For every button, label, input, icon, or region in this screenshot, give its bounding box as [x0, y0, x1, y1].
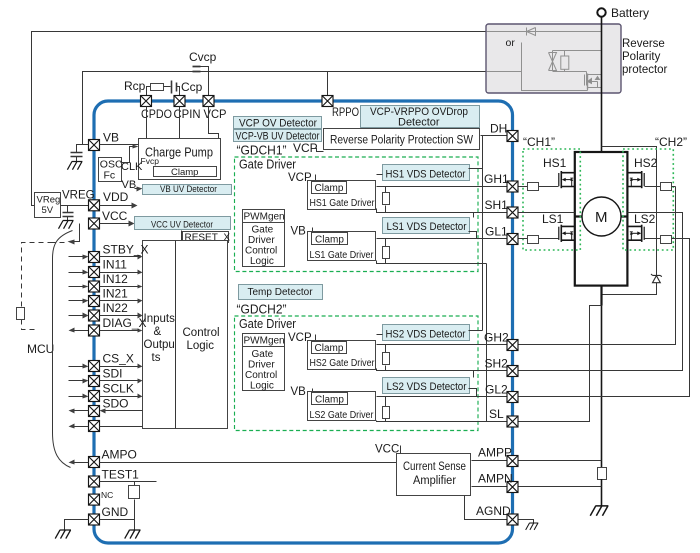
wire HS1 driver to VDS — [377, 174, 383, 176]
pin CPDO — [141, 96, 152, 107]
motor M — [582, 197, 621, 236]
svg-text:Detector: Detector — [398, 117, 440, 129]
svg-text:Fvcp: Fvcp — [141, 156, 160, 166]
resistor Rg GL1 — [519, 236, 559, 244]
pin CS_X — [89, 361, 100, 372]
svg-text:SCLK: SCLK — [103, 382, 134, 396]
wire VREG to VDD — [61, 205, 89, 207]
svg-text:VReg: VReg — [37, 195, 61, 206]
motor bridge frame — [575, 152, 628, 286]
ground shunt — [590, 506, 608, 516]
wire or-branch stub — [521, 43, 523, 72]
wire SL jog — [519, 306, 602, 422]
ground TEST1/GND — [125, 530, 141, 539]
svg-text:“CH2”: “CH2” — [655, 135, 687, 149]
wire shunt vertical — [601, 306, 603, 468]
wire VB to charge pump — [100, 144, 139, 146]
wire VCP tick GDCH1 — [315, 175, 317, 182]
battery node — [597, 8, 605, 16]
pin GH1 — [507, 181, 518, 192]
svg-text:DH: DH — [490, 122, 507, 136]
wire VDD arrow — [100, 203, 138, 209]
svg-text:Cvcp: Cvcp — [189, 50, 217, 64]
svg-text:Amplifier: Amplifier — [413, 475, 456, 487]
resistor LS1 gs — [383, 239, 390, 264]
wire VCC UV to logic — [181, 231, 183, 241]
resistor Rg GH1 — [519, 183, 559, 191]
transistor LS1 — [559, 225, 575, 242]
svg-text:VCC UV Detector: VCC UV Detector — [151, 219, 213, 230]
wire AMPO to CSA — [100, 462, 397, 464]
wire shunt to ground — [601, 479, 603, 506]
VCC UV Detector box — [135, 217, 231, 231]
wire AMPN tap — [519, 486, 602, 488]
svg-text:LS2: LS2 — [634, 212, 656, 226]
capacitor Ccp — [172, 81, 180, 96]
wire SH1 to LS1 VDS — [473, 213, 475, 218]
svg-text:Outpu: Outpu — [144, 339, 175, 351]
wire VCP tick GDCH2 — [315, 335, 317, 342]
TVS bidirectional zener — [549, 51, 557, 71]
clamp box HS2 — [312, 342, 347, 355]
wire IN21 — [69, 299, 143, 304]
wire SH2 to LS2 VDS — [473, 371, 475, 378]
wire diode branch — [487, 31, 602, 33]
capacitor VREG — [63, 206, 74, 221]
pin IN12 — [89, 281, 100, 292]
wire IN22 — [69, 313, 143, 319]
wire GL2 line — [377, 396, 519, 398]
resistor LS2 gs — [383, 397, 390, 422]
wire VB rail (protector output 2) — [83, 72, 487, 145]
svg-text:GL1: GL1 — [485, 225, 508, 239]
svg-text:Clamp: Clamp — [315, 183, 344, 194]
svg-text:LS2 Gate Driver: LS2 Gate Driver — [310, 410, 375, 421]
svg-text:“GDCH2”: “GDCH2” — [237, 303, 287, 317]
pin GND — [89, 514, 100, 525]
reverse polarity protector box — [486, 24, 621, 93]
capacitor VB decoupling — [71, 145, 89, 162]
svg-text:Logic: Logic — [250, 256, 274, 267]
LS1 Gate Driver box — [308, 232, 376, 262]
svg-text:NC: NC — [101, 490, 113, 500]
Reverse Polarity Protection SW box — [324, 129, 480, 150]
pin SH2 — [507, 366, 518, 377]
svg-text:“CH1”: “CH1” — [523, 135, 555, 149]
pin TEST1 — [89, 476, 100, 487]
VCP OV Detector box — [234, 117, 322, 130]
svg-text:SDO: SDO — [103, 397, 129, 411]
transistor pass FET — [585, 72, 602, 91]
wire LS2 VDS to GL2 — [469, 389, 477, 397]
svg-text:Rcp: Rcp — [124, 79, 146, 93]
svg-text:&: & — [154, 326, 162, 338]
pin AGND — [507, 514, 518, 525]
diode D (reverse protection) — [527, 28, 536, 36]
wire DH — [481, 135, 507, 137]
wire LS2 source SL — [377, 421, 519, 422]
svg-text:Gate Driver: Gate Driver — [239, 317, 296, 331]
svg-text:Gate: Gate — [252, 225, 274, 236]
LS2 VDS Detector box — [383, 378, 470, 394]
wire GH1 line — [377, 186, 519, 188]
svg-text:GND: GND — [102, 505, 129, 519]
pin AMPP — [507, 456, 518, 467]
wire CSA to AMPN — [472, 486, 507, 488]
MCU dashed rail — [22, 243, 53, 330]
resistor Rg GH2 — [645, 183, 676, 191]
wire CPDO riser — [146, 107, 148, 139]
svg-text:Clamp: Clamp — [315, 234, 344, 245]
wire SH1 — [519, 212, 575, 214]
pin AMPO — [89, 457, 100, 468]
svg-text:VB: VB — [291, 386, 307, 398]
svg-text:protector: protector — [622, 64, 668, 76]
pin IN21 — [89, 296, 100, 307]
svg-text:Driver: Driver — [248, 359, 275, 370]
transistor LS2 — [628, 225, 644, 242]
svg-text:5V: 5V — [42, 205, 54, 216]
pin SDI — [89, 376, 100, 387]
svg-text:IN22: IN22 — [103, 301, 129, 315]
svg-text:“GDCH1”: “GDCH1” — [237, 144, 287, 158]
GDCH1 dashed box — [235, 157, 479, 272]
transistor HS1 — [559, 171, 575, 188]
pin GL2 — [507, 392, 518, 403]
RESET_X box — [183, 232, 231, 244]
svg-text:HS1 Gate Driver: HS1 Gate Driver — [310, 198, 376, 209]
clamp box LS2 — [312, 393, 348, 406]
wire VCC tick CSA — [400, 446, 402, 454]
svg-text:Clamp: Clamp — [171, 167, 198, 178]
IC package boundary (blue rounded box) — [94, 101, 513, 543]
resistor HS2 gs — [383, 345, 390, 371]
label Control Logic — [183, 327, 220, 352]
wire GL2 wrap — [519, 239, 690, 397]
resistor TEST1 pulldown — [129, 482, 140, 531]
svg-text:GH2: GH2 — [484, 331, 509, 345]
wire HS2 driver to VDS — [377, 334, 383, 336]
wire TEST1 — [100, 481, 157, 483]
svg-text:SH2: SH2 — [485, 357, 509, 371]
svg-text:Control: Control — [245, 370, 277, 381]
resistor Rg GL2 — [645, 236, 683, 244]
pin IN11 — [89, 267, 100, 278]
wire LS1 source — [377, 261, 487, 264]
pin GH2 — [507, 340, 518, 351]
pin AMPN — [507, 482, 518, 493]
svg-text:TEST1: TEST1 — [102, 468, 140, 482]
wire AGND right — [519, 520, 534, 523]
LS1 VDS Detector box — [383, 218, 470, 234]
CH2 dotted box — [623, 149, 673, 250]
wire SH2 inner — [377, 369, 519, 371]
HS1 Gate Driver box — [308, 181, 376, 210]
Inputs and Outputs box — [143, 241, 228, 429]
VB UV Detector box — [143, 184, 232, 195]
wire DH rail vertical — [482, 136, 484, 331]
svg-text:Current Sense: Current Sense — [403, 461, 466, 473]
wire DIAG_X — [100, 329, 143, 333]
svg-text:HS2: HS2 — [634, 156, 658, 170]
pin VCC — [89, 218, 100, 229]
pin NC — [89, 494, 100, 505]
PWMgen box GDCH2 — [243, 334, 285, 347]
svg-text:Gate Driver: Gate Driver — [239, 158, 296, 172]
pin SL — [507, 416, 518, 427]
svg-text:or: or — [506, 37, 516, 49]
pin IN22 — [89, 310, 100, 321]
wire VB tick GDCH1 — [312, 228, 314, 233]
wire gate rail top — [553, 50, 602, 52]
GDCH2 dashed box — [235, 316, 479, 431]
wire RPPO riser — [327, 72, 329, 96]
svg-text:Fc: Fc — [104, 170, 116, 182]
wire IN11 — [69, 270, 143, 275]
resistor MCU pullup — [17, 308, 25, 320]
wire VCP riser — [209, 107, 219, 139]
wire LS1 VDS to GL1 — [469, 232, 477, 239]
pin VDD — [89, 200, 100, 211]
svg-text:AGND: AGND — [476, 504, 511, 518]
svg-text:Logic: Logic — [187, 340, 215, 352]
svg-text:CS_X: CS_X — [103, 352, 134, 366]
svg-text:VDD: VDD — [103, 190, 129, 204]
wire SDO — [69, 409, 143, 414]
HS1 VDS Detector box — [383, 165, 470, 181]
svg-text:Reverse: Reverse — [622, 38, 665, 50]
wire SH1 inner — [377, 209, 519, 213]
svg-text:SDI: SDI — [103, 367, 123, 381]
wire P15 — [69, 424, 143, 429]
wire VCC arrow — [100, 221, 135, 227]
svg-text:Temp Detector: Temp Detector — [248, 287, 314, 298]
ground VB cap — [67, 162, 82, 170]
svg-text:MCU: MCU — [27, 342, 54, 356]
svg-text:SH1: SH1 — [485, 198, 509, 212]
OSC box — [99, 158, 123, 182]
pin GL1 — [507, 234, 518, 245]
pin VCP — [203, 96, 214, 107]
clamp box (charge pump) — [154, 167, 217, 177]
wire CLK arrow — [121, 145, 139, 163]
Gate Driver Control Logic box GDCH2 — [243, 347, 285, 392]
wire GH2 wrap — [519, 187, 676, 345]
clamp box HS1 — [312, 182, 347, 195]
svg-text:Driver: Driver — [248, 235, 275, 246]
svg-text:VB: VB — [103, 131, 119, 145]
svg-text:Clamp: Clamp — [315, 343, 344, 354]
svg-text:Battery: Battery — [611, 6, 649, 20]
transistor HS2 — [628, 171, 644, 188]
resistor HS1 gs — [383, 187, 390, 213]
svg-text:Clamp: Clamp — [315, 394, 344, 405]
wire AMPO arrow — [69, 460, 89, 465]
wire VCP to SW — [314, 149, 324, 152]
wire SDI — [69, 379, 143, 384]
wire HS1 VDS top — [469, 168, 483, 170]
wire bridge bottom stub — [600, 286, 602, 306]
svg-text:STBY_X: STBY_X — [103, 243, 149, 257]
VCP-VB UV Detector box — [234, 130, 322, 143]
VCP-VRPPO OVDrop Detector box — [361, 106, 480, 129]
wire FET branch return — [487, 72, 588, 91]
charge pump box — [139, 139, 221, 180]
svg-text:DIAG_X: DIAG_X — [103, 316, 147, 330]
wire SCLK — [69, 394, 143, 399]
resistor shunt — [598, 468, 607, 480]
svg-text:Polarity: Polarity — [622, 51, 661, 63]
svg-text:Control: Control — [183, 327, 220, 339]
wire DIAG_X return — [69, 328, 89, 333]
svg-text:AMPP: AMPP — [478, 446, 512, 460]
svg-text:CPDO: CPDO — [141, 107, 172, 121]
wire CS_X — [69, 364, 143, 369]
wire battery rail top (protector output to VReg) — [32, 32, 487, 206]
svg-text:VCC: VCC — [375, 444, 399, 456]
resistor gate bleed — [553, 51, 587, 72]
svg-text:LS2 VDS Detector: LS2 VDS Detector — [387, 381, 467, 393]
VReg box — [35, 193, 61, 218]
pin SCLK — [89, 391, 100, 402]
zener clamp ZD — [651, 274, 662, 283]
svg-text:VCP: VCP — [204, 107, 227, 121]
svg-text:HS1 VDS Detector: HS1 VDS Detector — [386, 169, 466, 181]
ground AGND — [526, 523, 539, 530]
Current Sense Amplifier box — [397, 454, 471, 496]
svg-text:AMPO: AMPO — [102, 448, 137, 462]
wire zener branch from battery — [602, 147, 657, 276]
pin RPPO — [322, 96, 333, 107]
svg-text:HS2 Gate Driver: HS2 Gate Driver — [310, 358, 376, 369]
svg-text:AMPN: AMPN — [478, 472, 513, 486]
svg-text:Ccp: Ccp — [181, 80, 203, 94]
pin STBY_X — [89, 252, 100, 263]
wire zener to bridge bottom — [602, 283, 657, 295]
wire HS2 VDS top — [469, 330, 483, 332]
HS2 Gate Driver box — [308, 341, 376, 370]
wire battery vertical — [601, 17, 603, 152]
ground VREG cap — [58, 221, 73, 229]
capacitor Cvcp — [193, 67, 209, 96]
svg-text:IN12: IN12 — [103, 272, 129, 286]
label Inputs & Outputs — [144, 313, 176, 364]
svg-text:Control: Control — [245, 246, 277, 257]
svg-text:Logic: Logic — [250, 380, 274, 391]
pin SH1 — [507, 207, 518, 218]
wire SL rail vertical — [486, 264, 488, 422]
svg-text:SL: SL — [489, 407, 504, 421]
svg-text:CPIN: CPIN — [174, 107, 201, 121]
svg-text:IN21: IN21 — [103, 287, 129, 301]
wire AMPP tap — [519, 460, 602, 462]
svg-text:VCC: VCC — [102, 209, 128, 223]
wire CSA AGND — [465, 496, 507, 520]
wire AMPO curve — [53, 231, 73, 468]
svg-text:LS1: LS1 — [542, 212, 564, 226]
HS2 VDS Detector box — [383, 325, 470, 341]
label Reverse Polarity protector — [622, 38, 668, 76]
PWMgen box GDCH1 — [243, 210, 285, 223]
wire VB tick GDCH2 — [312, 389, 314, 393]
wire CPIN riser — [179, 107, 181, 139]
Gate Driver Control Logic box GDCH1 — [243, 223, 285, 268]
svg-text:ts: ts — [152, 352, 161, 364]
wire CSA to AMPP — [472, 460, 507, 462]
wire VB UV arrow — [135, 187, 143, 192]
svg-text:RPPO: RPPO — [332, 105, 359, 119]
CH1 dotted box — [523, 149, 580, 250]
wire GH2 line — [377, 344, 519, 346]
svg-text:GL2: GL2 — [485, 383, 508, 397]
Temp Detector box — [239, 285, 323, 300]
svg-text:Inputs: Inputs — [144, 313, 176, 325]
divider control logic — [175, 241, 177, 429]
clamp box LS1 — [312, 233, 348, 246]
wire VCC to MCU — [53, 224, 80, 245]
pin SDO — [89, 406, 100, 417]
svg-text:PWMgen: PWMgen — [244, 211, 285, 222]
pin P15 unnamed — [89, 421, 100, 432]
svg-text:LS1 Gate Driver: LS1 Gate Driver — [310, 250, 375, 261]
pin DIAG_X — [89, 325, 100, 336]
svg-text:VCP OV Detector: VCP OV Detector — [239, 117, 317, 129]
svg-text:IN11: IN11 — [103, 258, 128, 272]
pin VB — [89, 140, 100, 151]
svg-text:GH1: GH1 — [484, 172, 509, 186]
svg-text:Gate: Gate — [252, 349, 274, 360]
pin CPIN — [174, 96, 185, 107]
svg-text:VB: VB — [291, 226, 307, 238]
ground GND left — [55, 530, 71, 539]
wire STBY_X — [69, 255, 143, 260]
svg-text:HS1: HS1 — [543, 156, 567, 170]
wire GND left — [65, 520, 89, 531]
svg-text:HS2 VDS Detector: HS2 VDS Detector — [386, 329, 466, 341]
svg-text:M: M — [595, 209, 608, 226]
resistor Rcp — [147, 84, 171, 96]
wire GL1 line — [377, 238, 519, 240]
wire SH2 wrap — [519, 213, 683, 371]
svg-text:LS1 VDS Detector: LS1 VDS Detector — [387, 221, 467, 233]
svg-text:VB UV Detector: VB UV Detector — [160, 184, 217, 195]
LS2 Gate Driver box — [308, 392, 376, 422]
pin DH — [507, 131, 518, 142]
svg-text:Reverse Polarity Protection SW: Reverse Polarity Protection SW — [330, 135, 473, 147]
wire IN12 — [69, 285, 143, 289]
svg-text:PWMgen: PWMgen — [244, 335, 285, 346]
wire motor stubs — [575, 215, 627, 217]
wire GND right — [100, 519, 135, 521]
